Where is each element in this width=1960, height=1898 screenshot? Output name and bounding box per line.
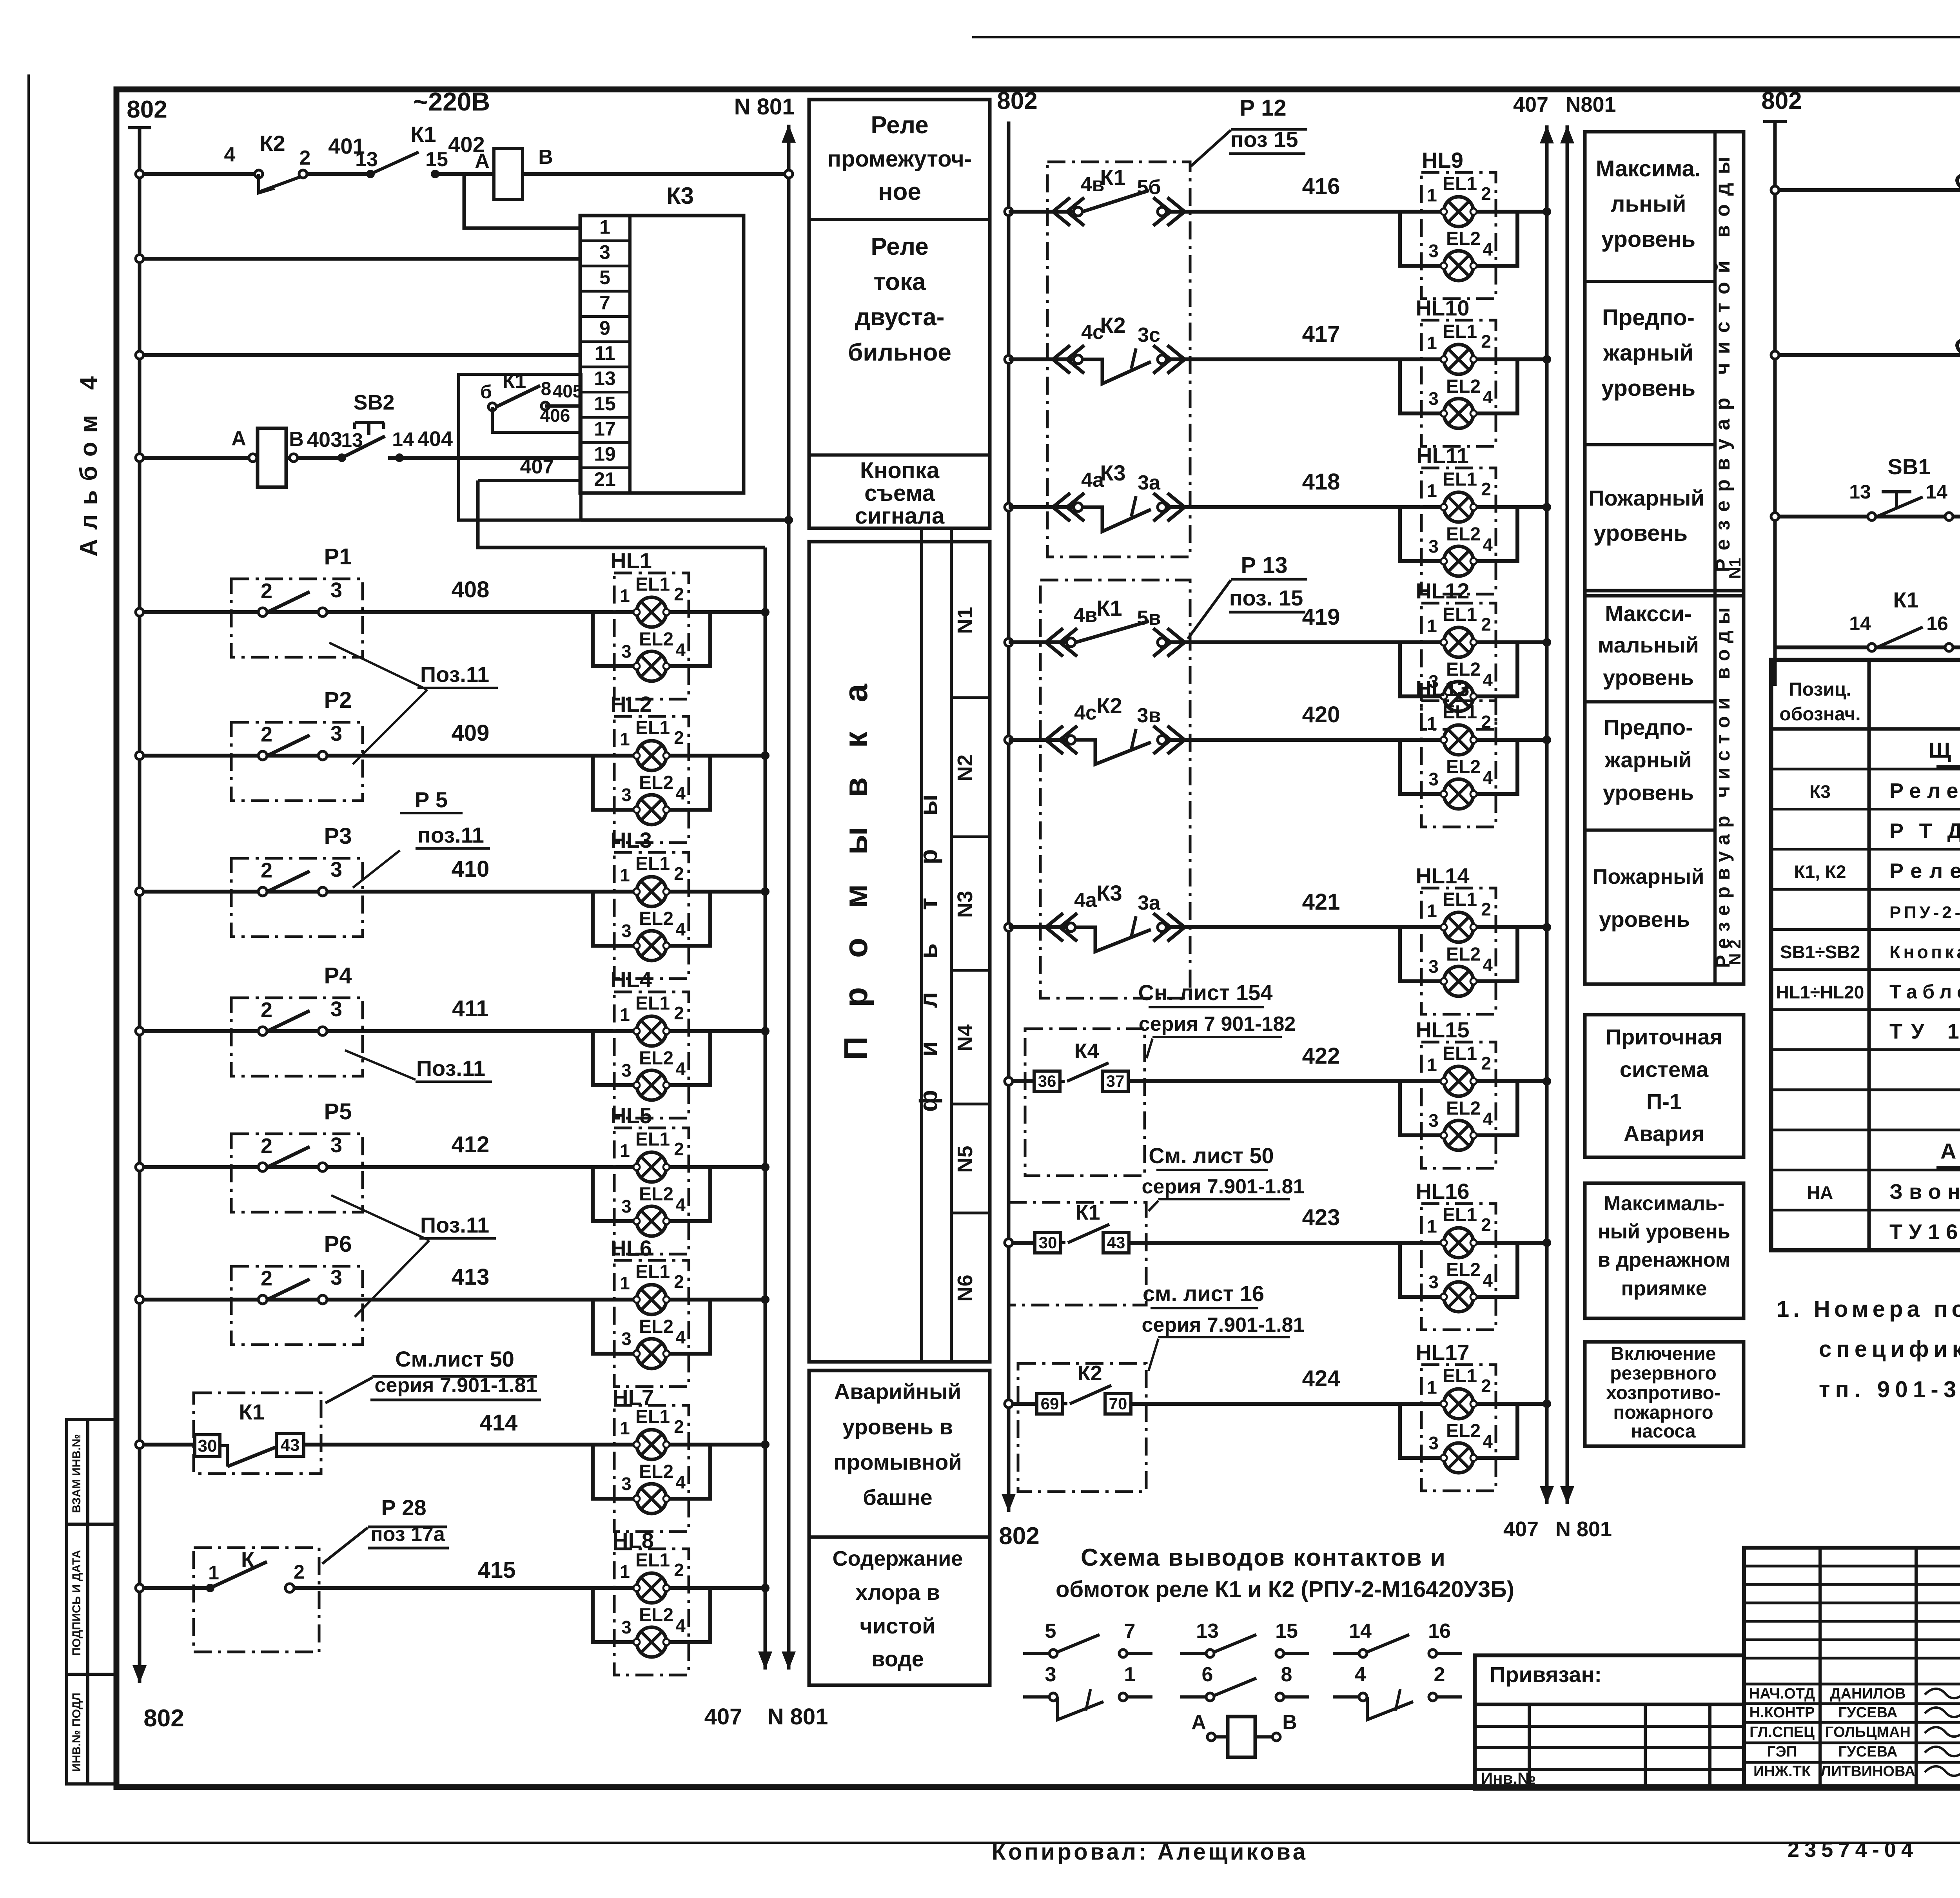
svg-text:N 801: N 801 bbox=[1555, 1517, 1612, 1541]
svg-text:3: 3 bbox=[330, 1133, 342, 1157]
svg-text:К1: К1 bbox=[1893, 587, 1918, 612]
svg-text:419: 419 bbox=[1302, 604, 1340, 630]
svg-text:серия 7.901-1.81: серия 7.901-1.81 bbox=[1142, 1175, 1304, 1198]
svg-text:тока: тока bbox=[874, 268, 926, 295]
svg-text:Реле: Реле bbox=[871, 233, 928, 260]
svg-text:HL1÷HL20: HL1÷HL20 bbox=[1776, 982, 1864, 1002]
svg-text:13: 13 bbox=[355, 148, 378, 171]
svg-text:421: 421 bbox=[1302, 889, 1340, 915]
svg-text:70: 70 bbox=[1109, 1394, 1127, 1413]
svg-text:13: 13 bbox=[594, 368, 616, 390]
svg-text:воде: воде bbox=[871, 1646, 924, 1671]
svg-text:ГЭП: ГЭП bbox=[1767, 1744, 1797, 1760]
svg-text:б: б bbox=[480, 382, 492, 402]
svg-text:промежуточ-: промежуточ- bbox=[828, 146, 972, 172]
svg-text:4а: 4а bbox=[1074, 889, 1097, 912]
svg-text:В: В bbox=[289, 428, 304, 451]
svg-text:13: 13 bbox=[1849, 481, 1871, 503]
svg-text:N801: N801 bbox=[1565, 93, 1616, 116]
svg-text:4в: 4в bbox=[1074, 604, 1098, 627]
svg-text:Сн. лист 154: Сн. лист 154 bbox=[1138, 980, 1273, 1005]
svg-text:обознач.: обознач. bbox=[1779, 704, 1860, 725]
svg-text:К1: К1 bbox=[1100, 165, 1125, 190]
svg-text:3с: 3с bbox=[1138, 324, 1160, 346]
svg-text:3: 3 bbox=[330, 997, 342, 1021]
svg-text:21: 21 bbox=[594, 468, 616, 490]
svg-text:НА: НА bbox=[1807, 1182, 1833, 1203]
svg-text:5в: 5в bbox=[1137, 607, 1161, 629]
svg-text:В: В bbox=[538, 146, 553, 169]
svg-text:См.лист 50: См.лист 50 bbox=[395, 1347, 514, 1371]
svg-text:сигнала: сигнала bbox=[855, 503, 945, 529]
svg-text:Р5: Р5 bbox=[324, 1099, 352, 1124]
svg-text:43: 43 bbox=[1107, 1233, 1125, 1252]
svg-text:17: 17 bbox=[594, 418, 616, 440]
svg-text:Р6: Р6 bbox=[324, 1231, 352, 1257]
svg-text:N6: N6 bbox=[953, 1274, 977, 1302]
svg-text:N1: N1 bbox=[953, 607, 977, 634]
svg-text:413: 413 bbox=[452, 1264, 490, 1290]
svg-text:9: 9 bbox=[599, 317, 610, 339]
svg-text:30: 30 bbox=[1039, 1233, 1057, 1252]
svg-text:14: 14 bbox=[392, 428, 414, 450]
svg-text:серия 7 901-182: серия 7 901-182 bbox=[1139, 1013, 1296, 1035]
svg-text:обмоток реле К1 и К2 (РПУ-2: обмоток реле К1 и К2 (РПУ-2-М16420У3Б) bbox=[1056, 1577, 1514, 1602]
svg-text:Предпо-: Предпо- bbox=[1604, 715, 1693, 740]
svg-text:417: 417 bbox=[1302, 321, 1340, 347]
svg-text:802: 802 bbox=[127, 96, 167, 123]
svg-text:8: 8 bbox=[541, 379, 552, 399]
svg-text:HL9: HL9 bbox=[1422, 148, 1463, 172]
svg-text:К1, К2: К1, К2 bbox=[1794, 862, 1846, 882]
svg-text:ГУСЕВА: ГУСЕВА bbox=[1838, 1744, 1898, 1760]
svg-text:1: 1 bbox=[1124, 1663, 1136, 1686]
svg-text:НАЧ.ОТД: НАЧ.ОТД bbox=[1749, 1686, 1815, 1702]
svg-text:407: 407 bbox=[1513, 93, 1548, 116]
svg-text:N 2: N 2 bbox=[1726, 939, 1744, 965]
svg-text:Максималь-: Максималь- bbox=[1604, 1192, 1724, 1215]
svg-text:П-1: П-1 bbox=[1646, 1089, 1682, 1114]
svg-text:двуста-: двуста- bbox=[855, 304, 945, 331]
svg-text:ГУСЕВА: ГУСЕВА bbox=[1838, 1704, 1898, 1721]
svg-text:13: 13 bbox=[1196, 1620, 1219, 1642]
svg-text:407: 407 bbox=[520, 455, 554, 478]
svg-text:3: 3 bbox=[330, 578, 342, 602]
svg-text:HL6: HL6 bbox=[610, 1236, 652, 1260]
svg-text:802: 802 bbox=[997, 87, 1037, 114]
svg-text:HL11: HL11 bbox=[1416, 443, 1469, 468]
svg-text:П р о м ы в к а: П р о м ы в к а bbox=[837, 683, 874, 1060]
svg-text:А: А bbox=[475, 150, 490, 172]
svg-text:HL15: HL15 bbox=[1416, 1017, 1470, 1042]
svg-text:7: 7 bbox=[599, 292, 610, 314]
svg-text:башне: башне bbox=[863, 1485, 932, 1510]
svg-text:Р 13: Р 13 bbox=[1241, 553, 1287, 578]
svg-text:В: В bbox=[1282, 1711, 1297, 1734]
svg-text:К1: К1 bbox=[410, 122, 436, 147]
svg-text:Аварийный: Аварийный bbox=[834, 1379, 961, 1404]
svg-text:Альбом 4: Альбом 4 bbox=[75, 376, 102, 557]
svg-text:HL16: HL16 bbox=[1416, 1179, 1470, 1204]
svg-text:Р 5: Р 5 bbox=[415, 787, 448, 812]
svg-text:см. лист 16: см. лист 16 bbox=[1143, 1281, 1264, 1306]
svg-text:406: 406 bbox=[540, 405, 570, 426]
svg-text:Поз.11: Поз.11 bbox=[420, 1213, 489, 1237]
svg-text:15: 15 bbox=[594, 393, 616, 415]
svg-text:2: 2 bbox=[261, 723, 272, 746]
svg-text:ный уровень: ный уровень bbox=[1598, 1220, 1730, 1243]
svg-text:SB1÷SB2: SB1÷SB2 bbox=[1780, 942, 1860, 962]
svg-text:Поз.11: Поз.11 bbox=[420, 662, 489, 687]
svg-text:HL13: HL13 bbox=[1416, 676, 1470, 701]
svg-text:ИНЖ.ТК: ИНЖ.ТК bbox=[1753, 1763, 1811, 1780]
svg-text:К4: К4 bbox=[1074, 1039, 1099, 1063]
svg-text:Пожарный: Пожарный bbox=[1593, 865, 1704, 888]
svg-text:ВЗАМ ИНВ.№: ВЗАМ ИНВ.№ bbox=[70, 1434, 83, 1513]
svg-text:N 801: N 801 bbox=[768, 1704, 828, 1729]
svg-text:Пожарный: Пожарный bbox=[1588, 486, 1704, 510]
svg-text:К2: К2 bbox=[260, 131, 285, 156]
svg-text:приямке: приямке bbox=[1621, 1277, 1707, 1300]
svg-text:2: 2 bbox=[1434, 1663, 1445, 1686]
svg-text:уровень: уровень bbox=[1603, 665, 1694, 690]
svg-text:льный: льный bbox=[1611, 191, 1686, 217]
svg-text:поз 17а: поз 17а bbox=[370, 1523, 445, 1546]
svg-text:6: 6 bbox=[1202, 1663, 1213, 1686]
svg-text:43: 43 bbox=[281, 1436, 300, 1455]
svg-text:14: 14 bbox=[1349, 1620, 1372, 1642]
svg-text:407: 407 bbox=[704, 1704, 742, 1729]
svg-text:ПОДПИСЬ И ДАТА: ПОДПИСЬ И ДАТА bbox=[70, 1550, 83, 1656]
svg-text:Предпо-: Предпо- bbox=[1602, 305, 1695, 330]
svg-text:ИНВ.№ ПОДЛ: ИНВ.№ ПОДЛ bbox=[70, 1693, 83, 1772]
svg-text:3: 3 bbox=[330, 1266, 342, 1289]
svg-text:Реле: Реле bbox=[871, 112, 928, 139]
svg-text:N3: N3 bbox=[953, 891, 977, 918]
svg-text:11: 11 bbox=[595, 342, 615, 364]
svg-text:Инв.№: Инв.№ bbox=[1481, 1769, 1536, 1787]
svg-text:3: 3 bbox=[1045, 1663, 1056, 1686]
svg-text:2: 2 bbox=[261, 579, 272, 603]
svg-text:416: 416 bbox=[1302, 174, 1340, 199]
svg-text:К3: К3 bbox=[1809, 781, 1831, 802]
svg-text:Максима.: Максима. bbox=[1596, 156, 1701, 181]
svg-text:1: 1 bbox=[208, 1562, 219, 1584]
svg-text:420: 420 bbox=[1302, 702, 1340, 727]
svg-text:N2: N2 bbox=[953, 754, 977, 781]
svg-text:Авария: Авария bbox=[1624, 1121, 1705, 1146]
svg-text:Н.КОНТР: Н.КОНТР bbox=[1749, 1704, 1815, 1721]
svg-text:съема: съема bbox=[864, 480, 935, 506]
svg-text:жарный: жарный bbox=[1604, 747, 1692, 772]
svg-text:HL12: HL12 bbox=[1416, 578, 1470, 603]
svg-text:К3: К3 bbox=[1096, 881, 1122, 905]
svg-text:2: 2 bbox=[294, 1561, 305, 1583]
svg-text:N5: N5 bbox=[953, 1146, 977, 1173]
svg-text:ное: ное bbox=[878, 178, 921, 205]
svg-text:8: 8 bbox=[1281, 1663, 1292, 1686]
svg-text:5: 5 bbox=[599, 266, 610, 288]
svg-text:уровень: уровень bbox=[1593, 520, 1688, 546]
svg-text:Р 28: Р 28 bbox=[381, 1495, 426, 1520]
svg-text:5: 5 bbox=[1045, 1620, 1056, 1642]
svg-text:система: система bbox=[1620, 1057, 1709, 1082]
svg-text:ЛИТВИНОВА: ЛИТВИНОВА bbox=[1820, 1763, 1915, 1780]
svg-text:К1: К1 bbox=[1076, 1201, 1100, 1224]
svg-text:РПУ-2-М16420У3Б ~220ВТУ16-523: РПУ-2-М16420У3Б ~220ВТУ16-523331-79 bbox=[1889, 903, 1960, 922]
svg-text:424: 424 bbox=[1302, 1366, 1340, 1391]
svg-text:802: 802 bbox=[999, 1523, 1039, 1550]
svg-text:2: 2 bbox=[261, 1267, 272, 1290]
svg-text:HL5: HL5 bbox=[610, 1103, 652, 1128]
svg-text:3а: 3а bbox=[1138, 892, 1161, 914]
svg-text:РТД 12 ~220В: РТД 12 ~220В bbox=[1889, 819, 1960, 843]
svg-text:Схема выводов контактов и: Схема выводов контактов и bbox=[1081, 1544, 1445, 1571]
svg-text:HL3: HL3 bbox=[610, 828, 652, 852]
svg-text:ГОЛЬЦМАН: ГОЛЬЦМАН bbox=[1825, 1724, 1911, 1740]
svg-text:мальный: мальный bbox=[1598, 633, 1699, 657]
svg-text:404: 404 bbox=[417, 427, 453, 451]
svg-text:Содержание: Содержание bbox=[833, 1547, 963, 1570]
svg-text:410: 410 bbox=[452, 856, 490, 882]
svg-text:15: 15 bbox=[425, 148, 448, 171]
svg-text:Приточная: Приточная bbox=[1606, 1024, 1723, 1049]
svg-text:К3: К3 bbox=[666, 183, 694, 209]
svg-text:HL4: HL4 bbox=[610, 967, 652, 992]
svg-text:Поз.11: Поз.11 bbox=[416, 1056, 485, 1080]
svg-text:4с: 4с bbox=[1074, 702, 1097, 724]
svg-text:Кнопка: Кнопка bbox=[860, 458, 940, 483]
svg-text:16: 16 bbox=[1428, 1620, 1451, 1642]
svg-text:7: 7 bbox=[1124, 1620, 1136, 1642]
svg-text:19: 19 bbox=[594, 443, 616, 465]
svg-text:хозпротиво-: хозпротиво- bbox=[1606, 1383, 1720, 1403]
svg-text:К: К bbox=[241, 1547, 255, 1572]
svg-text:422: 422 bbox=[1302, 1043, 1340, 1069]
svg-text:Р1: Р1 bbox=[324, 544, 352, 569]
svg-text:16: 16 bbox=[1926, 613, 1948, 634]
svg-text:промывной: промывной bbox=[833, 1450, 962, 1474]
svg-text:К1: К1 bbox=[503, 370, 526, 393]
svg-text:пожарного: пожарного bbox=[1613, 1402, 1713, 1423]
svg-text:К1: К1 bbox=[239, 1399, 264, 1424]
svg-text:уровень: уровень bbox=[1601, 375, 1695, 401]
svg-text:3: 3 bbox=[599, 241, 610, 263]
svg-text:См. лист 50: См. лист 50 bbox=[1149, 1143, 1274, 1168]
svg-text:А: А bbox=[231, 427, 246, 450]
svg-text:Позиц.: Позиц. bbox=[1789, 679, 1851, 700]
svg-text:HL10: HL10 bbox=[1416, 295, 1470, 320]
svg-text:насоса: насоса bbox=[1631, 1421, 1695, 1442]
svg-text:1: 1 bbox=[599, 216, 610, 238]
svg-text:3: 3 bbox=[330, 722, 342, 745]
svg-text:поз 15: поз 15 bbox=[1230, 127, 1298, 152]
svg-text:HL14: HL14 bbox=[1416, 863, 1470, 888]
svg-text:К2: К2 bbox=[1096, 693, 1122, 718]
svg-text:Максси-: Максси- bbox=[1605, 601, 1691, 626]
svg-text:412: 412 bbox=[452, 1132, 490, 1157]
svg-text:уровень: уровень bbox=[1601, 227, 1695, 252]
svg-text:уровень: уровень bbox=[1599, 907, 1690, 932]
svg-text:407: 407 bbox=[1503, 1517, 1539, 1541]
svg-text:N 801: N 801 bbox=[734, 94, 795, 120]
svg-text:серия 7.901-1.81: серия 7.901-1.81 bbox=[1142, 1314, 1304, 1336]
svg-text:N4: N4 bbox=[953, 1024, 977, 1051]
svg-text:423: 423 bbox=[1302, 1205, 1340, 1230]
svg-text:серия 7.901-1.81: серия 7.901-1.81 bbox=[374, 1374, 537, 1397]
svg-text:жарный: жарный bbox=[1603, 340, 1693, 366]
svg-text:30: 30 bbox=[198, 1436, 217, 1456]
svg-text:~220В: ~220В bbox=[413, 87, 490, 116]
svg-text:HL17: HL17 bbox=[1416, 1340, 1470, 1365]
svg-text:резервного: резервного bbox=[1610, 1363, 1717, 1384]
svg-text:414: 414 bbox=[480, 1410, 518, 1436]
svg-text:15: 15 bbox=[1275, 1620, 1298, 1642]
svg-text:802: 802 bbox=[143, 1705, 184, 1732]
svg-text:Резервуар чистои воды: Резервуар чистои воды bbox=[1712, 607, 1734, 968]
svg-text:уровень: уровень bbox=[1603, 780, 1694, 805]
svg-text:411: 411 bbox=[452, 996, 489, 1021]
svg-text:2: 2 bbox=[261, 859, 272, 882]
svg-text:69: 69 bbox=[1041, 1394, 1059, 1413]
svg-text:Включение: Включение bbox=[1611, 1343, 1716, 1364]
svg-text:2: 2 bbox=[261, 998, 272, 1022]
svg-text:408: 408 bbox=[452, 577, 490, 602]
svg-text:чистой: чистой bbox=[860, 1613, 935, 1638]
svg-text:HL2: HL2 bbox=[610, 692, 652, 716]
svg-text:А: А bbox=[1191, 1711, 1206, 1734]
svg-text:405: 405 bbox=[553, 381, 583, 401]
svg-text:N1: N1 bbox=[1726, 558, 1744, 579]
svg-text:ДАНИЛОВ: ДАНИЛОВ bbox=[1830, 1686, 1906, 1702]
svg-text:поз. 15: поз. 15 bbox=[1229, 586, 1303, 610]
svg-text:Р 12: Р 12 bbox=[1240, 95, 1286, 121]
svg-text:уровень в: уровень в bbox=[842, 1414, 953, 1439]
svg-text:К3: К3 bbox=[1100, 460, 1125, 485]
svg-text:ГЛ.СПЕЦ: ГЛ.СПЕЦ bbox=[1749, 1724, 1815, 1740]
svg-text:Р3: Р3 bbox=[324, 823, 352, 849]
svg-text:Табло световое ТСБ-Ш-У3-01: Табло световое ТСБ-Ш-У3-01 bbox=[1889, 981, 1960, 1003]
svg-text:хлора в: хлора в bbox=[855, 1580, 940, 1604]
svg-text:Привязан:: Привязан: bbox=[1490, 1662, 1602, 1687]
svg-text:3: 3 bbox=[330, 858, 342, 881]
svg-text:поз.11: поз.11 bbox=[417, 823, 484, 847]
svg-text:14: 14 bbox=[1849, 613, 1871, 634]
svg-text:415: 415 bbox=[478, 1557, 516, 1583]
svg-text:2: 2 bbox=[261, 1134, 272, 1158]
svg-text:409: 409 bbox=[452, 720, 490, 746]
svg-text:К2: К2 bbox=[1100, 313, 1125, 337]
svg-text:37: 37 bbox=[1106, 1072, 1125, 1090]
svg-text:3в: 3в bbox=[1137, 704, 1161, 727]
svg-text:418: 418 bbox=[1302, 469, 1340, 495]
svg-text:2: 2 bbox=[299, 147, 311, 169]
svg-text:Р4: Р4 bbox=[324, 963, 352, 988]
svg-text:К2: К2 bbox=[1078, 1361, 1102, 1385]
svg-text:403: 403 bbox=[307, 428, 342, 451]
svg-text:3а: 3а bbox=[1138, 471, 1161, 494]
svg-text:4: 4 bbox=[224, 143, 236, 166]
svg-text:802: 802 bbox=[1761, 87, 1802, 114]
svg-text:Р2: Р2 bbox=[324, 687, 352, 713]
svg-text:К1: К1 bbox=[1096, 596, 1122, 620]
svg-text:бильное: бильное bbox=[848, 339, 951, 366]
svg-text:SB1: SB1 bbox=[1888, 454, 1931, 479]
svg-text:14: 14 bbox=[1926, 481, 1947, 503]
svg-text:в дренажном: в дренажном bbox=[1598, 1249, 1730, 1271]
svg-text:4: 4 bbox=[1355, 1663, 1366, 1686]
svg-text:SB2: SB2 bbox=[353, 391, 394, 414]
svg-text:Кнопка КЕ-011У3 исп 2 ТУ 16526: Кнопка КЕ-011У3 исп 2 ТУ 16526407-79 bbox=[1889, 942, 1960, 962]
svg-text:5б: 5б bbox=[1137, 176, 1161, 199]
svg-text:36: 36 bbox=[1038, 1072, 1056, 1090]
svg-text:HL1: HL1 bbox=[610, 548, 652, 573]
